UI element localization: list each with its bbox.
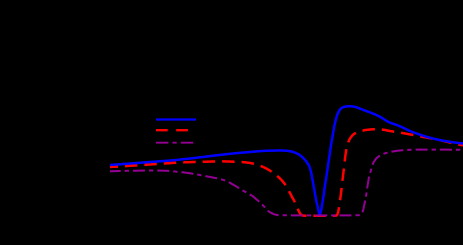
curve: red dashed (medium-Q resonance) bbox=[110, 129, 463, 216]
legend sample line blue solid bbox=[156, 118, 196, 120]
legend sample line purple dash-dot bbox=[156, 142, 196, 144]
legend sample line red dashed bbox=[156, 129, 196, 131]
curve: purple dash-dot (low-Q resonance) bbox=[110, 150, 463, 216]
curve: blue solid (high-Q resonance) bbox=[110, 106, 463, 214]
